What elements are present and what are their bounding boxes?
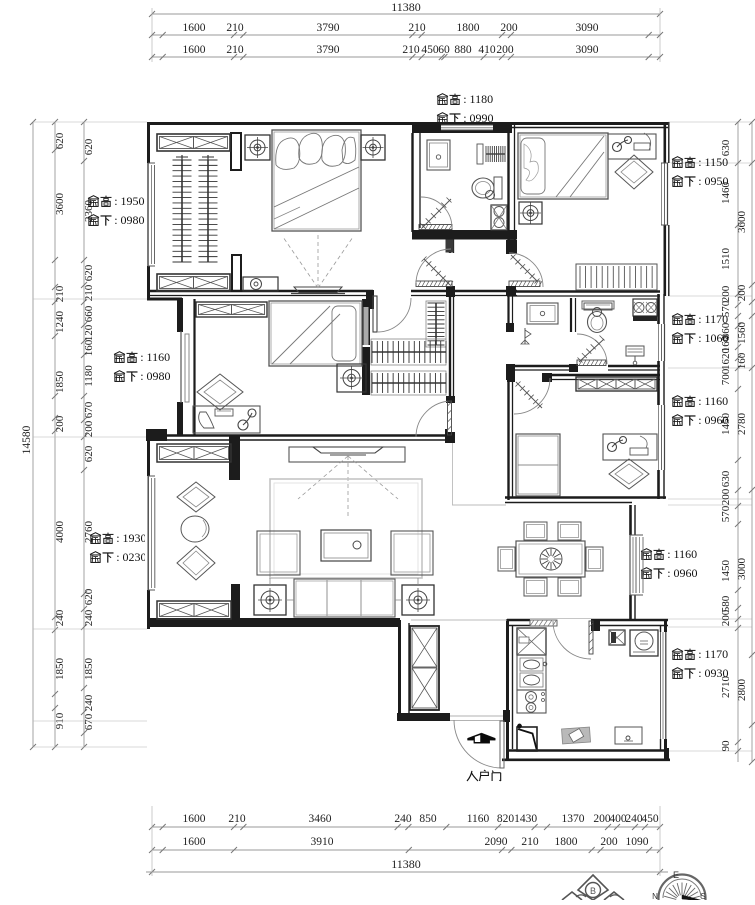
svg-text:1600: 1600 [183, 44, 206, 56]
living bay pier bottom [231, 584, 240, 620]
svg-text:: 1950: : 1950 [114, 194, 144, 208]
svg-text:1850: 1850 [54, 658, 66, 681]
svg-text:200: 200 [600, 836, 618, 848]
svg-text:200: 200 [83, 420, 95, 437]
master closet top cabinet [157, 134, 230, 151]
door kitchen arc [553, 621, 591, 659]
bed3 ceiling light [519, 202, 542, 224]
svg-text:: 0950: : 0950 [698, 174, 728, 188]
living side table left [254, 585, 286, 615]
bed3 bottom wall [507, 290, 660, 292]
svg-text:630: 630 [720, 470, 732, 487]
svg-text:670: 670 [83, 713, 95, 730]
bath2 hanger [524, 328, 526, 344]
living top wall / bed2 bottom wall [165, 434, 446, 437]
living bay cabinet bottom [157, 601, 231, 619]
door bath2-toilet arc [577, 334, 607, 364]
svg-text:3790: 3790 [317, 22, 340, 34]
svg-text:200: 200 [736, 284, 748, 301]
svg-text:: 1060: : 1060 [698, 331, 728, 345]
entry door icon [468, 733, 496, 743]
label window right bed3 [672, 157, 683, 160]
svg-text:630: 630 [720, 139, 732, 156]
living tv cabinet [289, 447, 405, 462]
svg-text:1180: 1180 [83, 365, 95, 387]
master closet bottom cabinet [157, 274, 230, 291]
bed4 top wall [507, 374, 660, 376]
kitchen fridge [630, 630, 658, 656]
bottom dimension chain row 2 [152, 849, 660, 851]
svg-text:: 1930: : 1930 [116, 531, 146, 545]
living diamond 1 [177, 482, 215, 512]
door entry arc [454, 720, 502, 768]
top dimension total line 11380 [152, 13, 660, 15]
svg-text:620: 620 [83, 264, 95, 281]
window kitchen east [659, 632, 667, 739]
label window right bath2 [672, 314, 683, 317]
entry shoe cabinet [410, 626, 439, 710]
svg-text:8201430: 8201430 [497, 813, 538, 825]
svg-text:850: 850 [419, 813, 437, 825]
living armchair left [257, 531, 300, 575]
master closet rails [181, 160, 183, 262]
bed3 desk [608, 134, 656, 159]
top dimension chain row 1 [152, 34, 660, 36]
bed2 ceiling light [337, 364, 366, 392]
living coffee table [321, 530, 371, 561]
svg-text:210: 210 [54, 285, 66, 302]
svg-text:2090: 2090 [485, 836, 508, 848]
living sofa [294, 579, 395, 617]
bath2 washer [633, 299, 657, 316]
entry west wall [398, 620, 401, 717]
left dimension chain outer [54, 122, 56, 747]
svg-text:1560: 1560 [736, 322, 748, 345]
svg-text:660: 660 [83, 305, 95, 322]
svg-text:: 0980: : 0980 [114, 213, 144, 227]
bed4 bottom wall [505, 496, 666, 499]
kitchen small box [609, 630, 625, 645]
svg-text:200: 200 [720, 285, 732, 302]
label window kitchen [672, 649, 683, 652]
bed2 bed [269, 301, 362, 366]
svg-text:B: B [590, 886, 596, 896]
bed4 desk [603, 434, 657, 460]
living side table right [402, 585, 434, 615]
bath1 bottom wall [412, 230, 517, 240]
svg-text:200: 200 [720, 488, 732, 505]
svg-text:240: 240 [625, 813, 643, 825]
dining centerpiece [540, 548, 562, 570]
svg-text:1850: 1850 [54, 371, 66, 394]
svg-text:: 0230: : 0230 [116, 550, 146, 564]
bed2 closet rails [426, 301, 446, 347]
master nightstand right [361, 135, 385, 160]
label window left living [90, 533, 101, 536]
bed3 bed [518, 133, 608, 199]
svg-text:60: 60 [438, 44, 450, 56]
living pouf circle [181, 516, 209, 542]
svg-text:620: 620 [83, 138, 95, 155]
bed4 bed [516, 434, 560, 496]
entry door label [467, 771, 472, 781]
svg-text:240: 240 [54, 609, 66, 626]
label window left bed2 [114, 352, 125, 355]
svg-text:3910: 3910 [311, 836, 334, 848]
bed4 wardrobe [576, 377, 657, 391]
svg-text:1850: 1850 [83, 658, 95, 681]
right dimension chain inner [737, 122, 739, 762]
label window left closet [88, 196, 99, 199]
kitchen item rect [615, 727, 642, 744]
label window right bed4 [672, 396, 683, 399]
bath1 toilet [494, 177, 502, 199]
kitchen counter sink [517, 655, 546, 690]
master tv [294, 287, 342, 293]
svg-text:210: 210 [226, 44, 244, 56]
svg-text:450: 450 [641, 813, 659, 825]
svg-text:: 0930: : 0930 [698, 666, 728, 680]
window right bed3 (1150) [660, 163, 671, 225]
master closet divider stub bottom [232, 255, 241, 291]
svg-text:160: 160 [736, 352, 748, 369]
bed2 outer wall with window (1160) [177, 298, 183, 332]
svg-text:: 0980: : 0980 [140, 369, 170, 383]
svg-text:200: 200 [54, 415, 66, 432]
living bay cabinet top [157, 444, 231, 462]
bed3 radiator [576, 264, 657, 290]
svg-text:1600: 1600 [183, 813, 206, 825]
living bay pier top [229, 436, 240, 480]
svg-text:N: N [652, 892, 658, 900]
svg-text:210: 210 [408, 22, 426, 34]
svg-text:90: 90 [720, 740, 732, 752]
bath1 washer [491, 205, 507, 230]
master wall cabinet [243, 277, 278, 291]
svg-text:580: 580 [720, 595, 732, 612]
living diamond 2 [177, 546, 215, 580]
window left living (1930) [145, 476, 155, 590]
bath2 stool [626, 346, 644, 356]
svg-text:240: 240 [394, 813, 412, 825]
svg-text:240: 240 [83, 694, 95, 711]
svg-text:1600: 1600 [183, 22, 206, 34]
living tv [313, 447, 383, 453]
bath2 toilet door bottom leaf [577, 360, 606, 366]
bath2 sink [527, 303, 558, 324]
bed4 diamond [609, 459, 649, 489]
master tv dashed rays [283, 237, 318, 288]
door hall-master arc [416, 249, 451, 283]
bed2 east wall (closet) [362, 299, 370, 395]
svg-text:410: 410 [478, 44, 496, 56]
svg-text:670: 670 [83, 401, 95, 418]
kitchen top cabinet [517, 628, 546, 655]
svg-text:620: 620 [83, 445, 95, 462]
right dimension chain outer [751, 122, 753, 762]
svg-text:: 1180: : 1180 [463, 92, 493, 106]
left total dimension 14580 [32, 122, 34, 747]
window right bed4 (1160) [657, 405, 667, 470]
outer wall right upper (bed3) [663, 122, 666, 296]
bath1 door leaf [419, 225, 452, 230]
svg-text:: 1150: : 1150 [698, 155, 728, 169]
bed3 west wall [507, 123, 509, 240]
svg-text:3790: 3790 [317, 44, 340, 56]
svg-text:1620: 1620 [720, 348, 732, 371]
svg-text:210: 210 [521, 836, 539, 848]
bath2 shelf [582, 301, 614, 309]
hall door bottom leaf bars [416, 281, 452, 287]
bottom dimension total line 11380 [146, 871, 668, 873]
svg-text:210: 210 [228, 813, 246, 825]
door master arc [373, 296, 377, 332]
bed3 diamond [615, 155, 653, 189]
hall door piers [446, 240, 454, 253]
svg-text:11380: 11380 [391, 0, 421, 14]
bed2 diamond [197, 374, 243, 410]
svg-text:: 1170: : 1170 [698, 312, 728, 326]
living armchair right [391, 531, 433, 575]
svg-text:1160: 1160 [467, 813, 490, 825]
hall west wall [449, 238, 451, 443]
svg-text:3090: 3090 [576, 44, 599, 56]
svg-text:11380: 11380 [391, 857, 421, 871]
kitchen bottom wall [506, 749, 668, 751]
svg-text:: 1160: : 1160 [667, 547, 697, 561]
svg-text:120: 120 [83, 324, 95, 341]
living tv dashed rays [298, 456, 348, 499]
logo diamonds [578, 875, 608, 900]
svg-text:200: 200 [720, 609, 732, 626]
svg-text:1800: 1800 [555, 836, 578, 848]
svg-text:200: 200 [500, 22, 518, 34]
svg-text:4000: 4000 [54, 521, 66, 544]
master closet divider stub top [231, 133, 241, 170]
door bed2 arc [416, 401, 452, 437]
svg-text:200: 200 [496, 44, 514, 56]
bottom dimension chain row 1 [152, 826, 660, 828]
svg-text:620: 620 [83, 588, 95, 605]
svg-text:240: 240 [83, 609, 95, 626]
bed2 top cabinet [196, 302, 267, 317]
bath1 west wall [411, 133, 413, 232]
master bottom wall [150, 290, 517, 292]
bath2 divider wall [570, 298, 572, 332]
svg-text:400: 400 [609, 813, 627, 825]
outer wall left lower [147, 434, 150, 629]
svg-text:1370: 1370 [562, 813, 585, 825]
door bed4 arc [514, 378, 550, 414]
svg-text:880: 880 [454, 44, 472, 56]
svg-text:450: 450 [421, 44, 439, 56]
bed4 west wall [507, 380, 509, 500]
outer wall top [147, 122, 668, 125]
svg-text:: 0960: : 0960 [667, 566, 697, 580]
kitchen pass hatch [530, 620, 557, 626]
wall jog upper (master/bed2) [147, 298, 182, 301]
svg-text:3460: 3460 [309, 813, 332, 825]
master bed [272, 130, 361, 231]
kitchen top wall [507, 619, 668, 622]
outer wall right lower (bath2/bed4) [657, 294, 660, 499]
svg-text:1240: 1240 [54, 311, 66, 334]
svg-text:: 1160: : 1160 [140, 350, 170, 364]
wall jog lower [146, 429, 167, 441]
entry bottom wall [397, 713, 450, 721]
svg-text:210: 210 [402, 44, 420, 56]
svg-text:620: 620 [54, 132, 66, 149]
svg-text:14580: 14580 [21, 425, 33, 454]
zone boundary lines [452, 443, 454, 505]
svg-text:200: 200 [593, 813, 611, 825]
window top bathroom pane [441, 125, 493, 130]
dining east wall [629, 505, 632, 621]
svg-text:: 0960: : 0960 [698, 413, 728, 427]
svg-text:1800: 1800 [457, 22, 480, 34]
top dimension chain row 2 [152, 56, 660, 58]
svg-text:160: 160 [83, 339, 95, 356]
kitchen stove [517, 690, 546, 713]
bath2 west wall [507, 296, 509, 331]
compass [659, 875, 706, 899]
living rug [270, 479, 422, 578]
bath2 toilet [584, 303, 612, 310]
svg-text:3090: 3090 [576, 22, 599, 34]
outer wall left upper [147, 122, 150, 300]
bath1 sink [427, 140, 450, 170]
left dimension chain inner [83, 122, 85, 747]
svg-text:700: 700 [720, 368, 732, 385]
svg-text:3600: 3600 [736, 211, 748, 234]
master nightstand left [245, 135, 270, 160]
window left closet (1950) [146, 163, 155, 266]
svg-text:S: S [700, 892, 705, 900]
window right bath2 (1170) [657, 324, 667, 361]
svg-text:1090: 1090 [626, 836, 649, 848]
door bed3 arc [509, 253, 543, 287]
bath2 bottom wall [507, 365, 660, 367]
kitchen east wall [664, 620, 667, 760]
living bottom wall [147, 618, 400, 627]
svg-text:1510: 1510 [720, 248, 732, 271]
svg-text:2800: 2800 [736, 679, 748, 702]
kitchen corner unit [517, 727, 537, 751]
svg-text:210: 210 [226, 22, 244, 34]
label window dining [641, 549, 652, 552]
svg-text:2780: 2780 [736, 413, 748, 436]
svg-text:570: 570 [720, 505, 732, 522]
window dining [628, 535, 637, 595]
dining table [516, 541, 585, 577]
svg-text:3600: 3600 [54, 193, 66, 216]
kitchen west wall [506, 619, 509, 760]
svg-text:1600: 1600 [183, 836, 206, 848]
svg-text:3000: 3000 [736, 558, 748, 581]
kitchen mat [562, 727, 591, 744]
door bath1 arc [421, 197, 452, 228]
label window top (bath) [437, 94, 448, 97]
svg-text:: 1170: : 1170 [698, 647, 728, 661]
bath1 shower panel [477, 144, 483, 164]
svg-text:E: E [673, 870, 679, 880]
dining chairs [524, 522, 547, 540]
bath1 towel rack [486, 153, 505, 155]
bed2 desk [193, 406, 260, 433]
svg-text:1450: 1450 [720, 560, 732, 583]
svg-text:: 1160: : 1160 [698, 394, 728, 408]
